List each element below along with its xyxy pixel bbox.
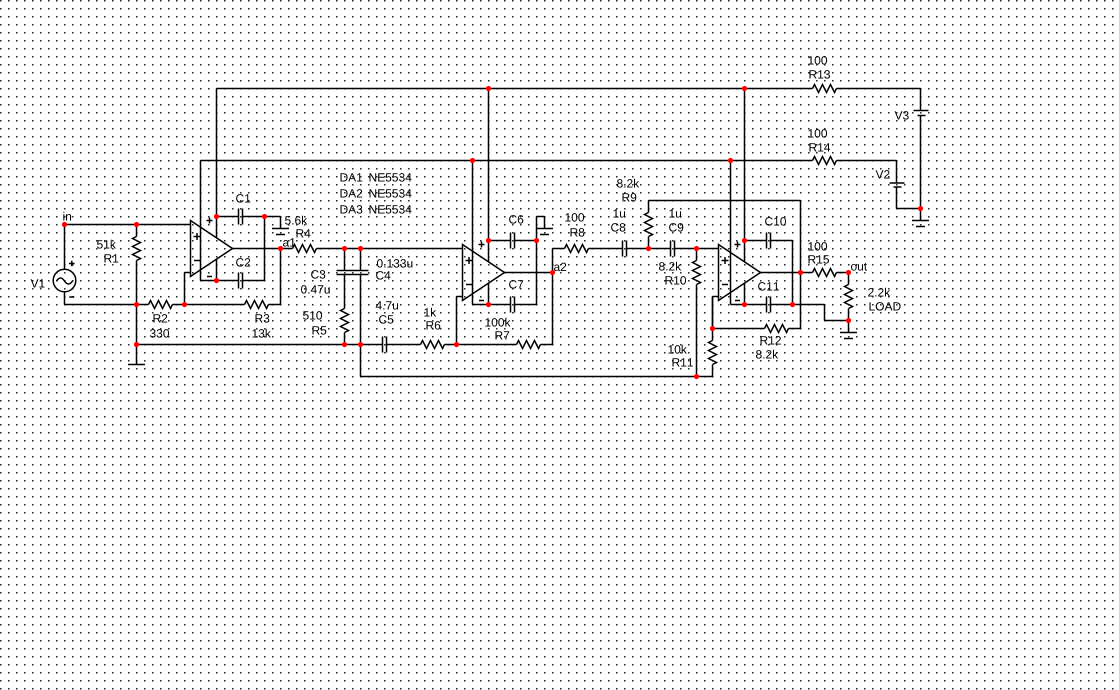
junction <box>182 302 187 307</box>
resistor R5 <box>303 275 349 345</box>
wire DA3 V- pin <box>731 161 767 305</box>
junction <box>262 214 267 219</box>
wire <box>136 305 138 365</box>
node a1 <box>283 238 295 246</box>
wire <box>793 305 849 321</box>
junction <box>214 278 219 283</box>
resistor R15 <box>808 242 836 276</box>
capacitor C10 <box>745 217 793 248</box>
resistor R10 <box>659 249 701 377</box>
wire <box>65 304 149 306</box>
capacitor C5 <box>376 301 398 352</box>
wire <box>920 116 922 209</box>
wire <box>387 344 421 346</box>
resistor R4 <box>293 245 317 253</box>
node a2 <box>554 263 566 272</box>
wire <box>537 217 545 305</box>
resistor R8 <box>565 213 589 252</box>
junction <box>134 302 139 307</box>
wire DA3 V+ pin <box>744 89 746 262</box>
capacitor C3 <box>301 249 353 294</box>
wire <box>792 241 794 305</box>
junction <box>790 302 795 307</box>
junction <box>534 238 539 243</box>
junction <box>486 238 491 243</box>
node in <box>63 212 71 221</box>
wire <box>649 200 801 202</box>
wire <box>445 344 517 346</box>
resistor R3 <box>245 301 271 338</box>
wire V- rail <box>201 160 897 162</box>
wire <box>627 248 671 250</box>
wire DA2 V- pin <box>473 161 511 305</box>
junction <box>486 86 491 91</box>
junction <box>846 318 851 323</box>
wire DA2 V+ pin <box>488 89 490 262</box>
junction <box>742 302 747 307</box>
source V1 <box>31 225 76 305</box>
junction <box>358 246 363 251</box>
junction <box>918 206 923 211</box>
capacitor C11 <box>758 282 792 312</box>
resistor R11 <box>668 297 716 377</box>
junction <box>454 342 459 347</box>
wire <box>269 249 281 305</box>
junction <box>342 246 347 251</box>
junction <box>846 270 851 275</box>
label DA2 NE5534 <box>341 189 412 198</box>
junction <box>550 270 555 275</box>
junction <box>742 238 747 243</box>
junction <box>278 246 283 251</box>
wire <box>65 224 191 226</box>
wire <box>505 249 565 273</box>
source V2 <box>876 170 905 187</box>
ground <box>272 229 289 235</box>
wire <box>920 209 922 221</box>
junction <box>62 222 67 227</box>
ground <box>840 333 857 339</box>
junction <box>798 270 803 275</box>
capacitor C6 <box>489 215 537 248</box>
ground <box>912 221 929 227</box>
junction <box>486 302 491 307</box>
junction <box>694 374 699 379</box>
junction <box>694 246 699 251</box>
wire <box>713 328 765 330</box>
junction <box>728 158 733 163</box>
wire <box>837 272 849 274</box>
node out <box>851 263 867 271</box>
op-amp DA3 <box>719 242 761 301</box>
junction <box>710 326 715 331</box>
resistor R7 <box>485 318 540 349</box>
wire <box>173 304 245 306</box>
capacitor C4 <box>353 249 413 280</box>
junction <box>214 214 219 219</box>
resistor R12 <box>756 325 789 359</box>
junction <box>470 158 475 163</box>
wire <box>137 344 383 346</box>
wire <box>761 272 813 274</box>
wire <box>265 217 281 281</box>
wire DA2 inverting input <box>457 297 463 345</box>
capacitor C1 <box>217 194 265 224</box>
source V3 <box>895 111 929 120</box>
junction <box>742 86 747 91</box>
capacitor C2 <box>236 258 264 288</box>
ground <box>128 364 145 366</box>
wire <box>896 161 898 183</box>
wire <box>233 248 293 250</box>
wire <box>361 376 713 378</box>
wire DA1 inverting input <box>185 273 191 305</box>
label 5.6k <box>285 216 311 238</box>
junction <box>134 342 139 347</box>
wire <box>675 248 719 250</box>
wire <box>848 321 850 333</box>
wire <box>541 249 553 345</box>
wire DA3 inverting input <box>713 297 719 329</box>
op-amp DA2 <box>463 242 505 301</box>
resistor R9 <box>617 179 653 249</box>
wire DA1 V- pin <box>201 161 239 281</box>
resistor R1 <box>97 225 141 305</box>
resistor R2 <box>149 301 173 338</box>
label DA1 NE5534 <box>341 173 412 182</box>
resistor R14 <box>808 129 836 164</box>
resistor LOAD <box>845 273 901 321</box>
wire <box>789 201 801 329</box>
wire V+ rail <box>217 88 921 90</box>
label DA3 NE5534 <box>341 205 412 214</box>
op-amp DA1 <box>191 218 233 277</box>
capacitor C8 <box>611 209 626 256</box>
junction <box>646 246 651 251</box>
junction <box>358 342 363 347</box>
wire <box>360 275 362 377</box>
resistor R6 <box>421 308 445 349</box>
ground <box>536 229 553 235</box>
junction <box>342 342 347 347</box>
wire DA1 V+ pin <box>216 89 218 238</box>
capacitor C7 <box>509 280 536 312</box>
wire <box>897 188 921 209</box>
wire <box>317 248 463 250</box>
wire <box>589 248 623 250</box>
wire <box>920 89 922 111</box>
capacitor C9 <box>669 209 683 256</box>
resistor R13 <box>808 56 836 92</box>
junction <box>134 222 139 227</box>
